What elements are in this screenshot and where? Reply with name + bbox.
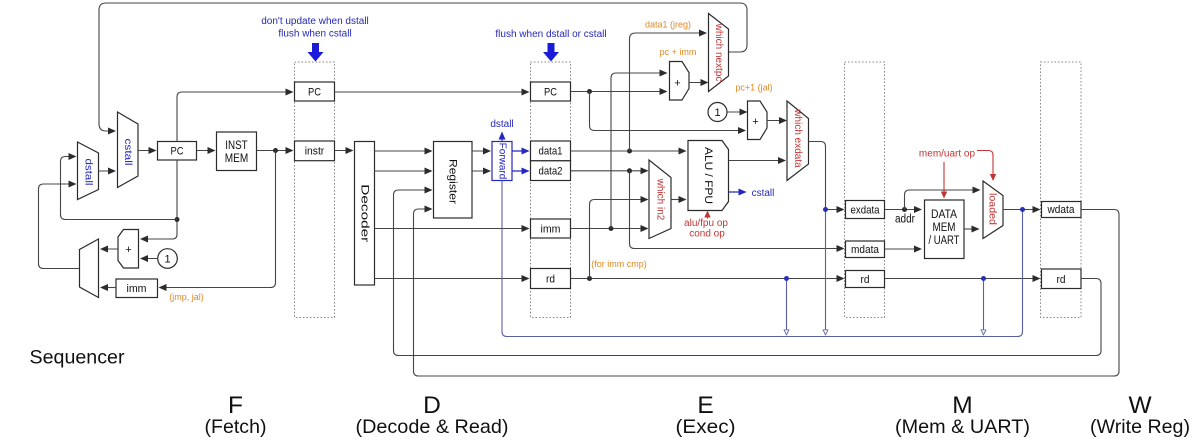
wire: Forward out2 to data2 (blue)	[512, 170, 529, 172]
svg-text:loaded: loaded	[987, 193, 998, 225]
wire: dstall out to cstall in2	[99, 170, 116, 172]
wire: PC hold back to dstall in1	[61, 157, 178, 220]
register imm (fetch)	[116, 279, 158, 298]
svg-text:exdata: exdata	[851, 205, 881, 217]
pipeline register D/E (dotted)	[531, 62, 571, 318]
register data2	[531, 161, 571, 181]
register imm (D/E)	[531, 219, 571, 238]
svg-text:cstall: cstall	[122, 139, 133, 166]
svg-text:(Mem & UART): (Mem & UART)	[895, 416, 1030, 438]
adder +1 (fetch)	[118, 230, 139, 269]
wire: adder out to jmp mux	[101, 248, 118, 250]
wire: PC bottom branch to +1 adder	[141, 160, 177, 239]
svg-text:MEM: MEM	[933, 222, 956, 234]
svg-text:PC: PC	[171, 146, 184, 158]
junction rd M forward (blue)	[981, 276, 986, 281]
svg-text:pc+1 (jal): pc+1 (jal)	[735, 83, 772, 93]
junction data2 branch	[627, 168, 632, 173]
adder pc+1	[748, 101, 768, 140]
junction PC hold	[175, 217, 180, 222]
svg-text:W: W	[1128, 392, 1152, 419]
wire: mem op arrow into DATA MEM (red)	[943, 162, 945, 198]
svg-text:PC: PC	[308, 87, 321, 99]
mux which exdata	[787, 101, 809, 181]
constant 1 (fetch)	[158, 249, 178, 269]
mux which in2	[649, 160, 671, 239]
wire: data1 out to ALU	[571, 150, 686, 152]
memory INST MEM	[217, 132, 257, 171]
svg-text:DATA: DATA	[931, 209, 957, 221]
wire: rd E/M forward tap (blue)	[786, 279, 788, 335]
junction exdata forward (blue)	[823, 207, 828, 212]
svg-text:which in2: which in2	[655, 178, 666, 221]
wire: data2 down to mdata	[630, 171, 844, 249]
blue fat arrow D/E	[543, 43, 559, 62]
svg-text:data2: data2	[539, 166, 563, 178]
wire: data1 up to which-nextpc (jreg)	[630, 33, 707, 151]
wire: Decoder src1 to Register	[375, 150, 432, 152]
wire: PC to INST MEM	[197, 150, 215, 152]
junction rd E forward (blue)	[784, 276, 789, 281]
svg-text:don't update when dstall: don't update when dstall	[261, 16, 369, 27]
wire: mem op elbow into loaded mux (red)	[977, 151, 993, 181]
wire: instr down to fetch imm box	[160, 151, 276, 288]
wire: Forward dstall up arrow (blue)	[501, 133, 503, 142]
wire: ALU cstall out (blue)	[729, 191, 746, 193]
svg-text:cstall: cstall	[752, 188, 775, 199]
svg-text:alu/fpu op: alu/fpu op	[684, 218, 728, 229]
junction data1 branch	[627, 149, 632, 154]
svg-text:(Exec): (Exec)	[676, 416, 736, 438]
pipeline register M/W (dotted)	[1041, 62, 1082, 318]
mux cstall	[118, 112, 139, 188]
junction rd imm-cmp branch	[587, 276, 592, 281]
svg-text:Forward: Forward	[496, 143, 507, 180]
wire: Decoder imm out	[375, 228, 529, 230]
register PC (fetch)	[158, 142, 197, 161]
svg-text:M: M	[952, 392, 972, 419]
wire: which-in2 out to ALU	[671, 199, 686, 201]
blue fat arrow F/D	[308, 43, 324, 62]
memory DATA MEM / UART	[925, 200, 965, 259]
mux jmp target (fetch)	[80, 239, 99, 298]
wire: jmp mux out to dstall in2	[39, 184, 80, 269]
register PC (F/D)	[295, 82, 335, 101]
svg-text:imm: imm	[127, 283, 147, 295]
svg-text:mdata: mdata	[851, 244, 880, 256]
mux which nextpc	[709, 14, 729, 92]
svg-text:Decoder: Decoder	[358, 184, 370, 242]
wire: rd (W) writeback loop to Register	[394, 190, 1102, 356]
wire: op arrow into ALU (red)	[707, 212, 709, 219]
svg-text:rd: rd	[546, 274, 555, 286]
wire: imm up to pc+imm adder	[611, 73, 667, 229]
wire: cstall out to PC	[138, 150, 156, 152]
svg-text:rd: rd	[861, 274, 870, 286]
svg-text:(jmp, jal): (jmp, jal)	[169, 292, 204, 302]
wire: exdata bypass to loaded mux	[905, 190, 980, 210]
wire: DATA MEM out to loaded mux	[964, 228, 979, 230]
svg-text:flush when cstall: flush when cstall	[278, 29, 351, 40]
wire: 1 to adder	[141, 258, 158, 260]
junction wdata forward (blue)	[1020, 207, 1025, 212]
pipeline register E/M (dotted)	[845, 62, 885, 318]
wire: wdata writeback loop to Register	[414, 209, 1120, 376]
wire: pc+imm out to which-nextpc	[689, 82, 708, 84]
register rd (W)	[1042, 269, 1082, 289]
wire: E/M rd to M/W rd	[885, 278, 1040, 280]
svg-text:1: 1	[714, 107, 720, 119]
wire: mdata to DATA MEM	[885, 248, 922, 250]
junction imm branch	[609, 226, 614, 231]
svg-text:Register: Register	[447, 159, 459, 204]
wire: INST MEM out to instr register	[257, 150, 293, 152]
wire: which-nextpc output top loop back to cstall mux	[99, 3, 747, 131]
svg-text:dstall: dstall	[490, 119, 513, 130]
svg-text:INST: INST	[225, 140, 247, 152]
svg-text:mem/uart op: mem/uart op	[919, 149, 976, 160]
mux loaded	[983, 181, 1003, 239]
svg-text:ALU / FPU: ALU / FPU	[702, 147, 714, 204]
wire: PC top branch to F/D PC register	[177, 92, 293, 142]
wire: pc+1 out to which-exdata	[767, 120, 786, 122]
svg-text:+: +	[125, 244, 131, 256]
svg-text:MEM: MEM	[225, 153, 249, 165]
svg-text:(Write Reg): (Write Reg)	[1090, 416, 1190, 438]
svg-text:pc + imm: pc + imm	[660, 47, 697, 57]
wire: instr to Decoder	[335, 150, 353, 152]
svg-text:instr: instr	[305, 146, 325, 158]
wire: Decoder rd out	[375, 278, 529, 280]
mux dstall	[78, 142, 99, 200]
register exdata	[846, 201, 885, 219]
adder pc+imm	[670, 62, 690, 101]
svg-text:dstall: dstall	[83, 159, 94, 186]
svg-text:which exdata: which exdata	[792, 108, 803, 168]
svg-text:1: 1	[164, 254, 170, 266]
wire: rd M/W forward tap (blue)	[983, 279, 985, 335]
junction PC branch	[587, 89, 592, 94]
wire: rd out to E/M rd	[571, 278, 844, 280]
svg-text:wdata: wdata	[1047, 204, 1076, 216]
svg-text:rd: rd	[1057, 274, 1066, 286]
pipeline register F/D (dotted)	[295, 62, 335, 318]
alu ALU / FPU	[688, 141, 729, 211]
svg-text:(Decode & Read): (Decode & Read)	[356, 416, 509, 438]
wire: Forward out1 to data1 (blue)	[512, 150, 529, 152]
svg-text:data1: data1	[539, 146, 563, 158]
wire: Register data1 to Forward	[472, 150, 490, 152]
svg-text:(Fetch): (Fetch)	[205, 416, 267, 438]
register data1	[531, 141, 571, 161]
wire: rd up to which-in2 (for imm cmp)	[590, 200, 648, 279]
wire: 1 to pc+1 adder	[727, 111, 747, 113]
svg-text:D: D	[423, 392, 441, 419]
decoder	[355, 142, 375, 286]
register file Register	[434, 142, 473, 219]
svg-text:addr: addr	[895, 214, 915, 226]
junction instr branch	[273, 148, 278, 153]
register PC (D/E)	[531, 82, 571, 101]
svg-text:+: +	[752, 116, 758, 128]
junction addr branch	[902, 207, 907, 212]
svg-text:which nextpc: which nextpc	[713, 23, 724, 82]
wire: exdata forward tap (blue)	[825, 210, 827, 335]
wire: D/E PC to pc+imm adder	[571, 91, 667, 93]
svg-text:Sequencer: Sequencer	[30, 348, 126, 369]
svg-text:data1 (jreg): data1 (jreg)	[645, 20, 691, 30]
register mdata	[846, 241, 885, 258]
svg-text:flush when dstall or cstall: flush when dstall or cstall	[495, 29, 606, 40]
wire: Decoder src2 to Register	[375, 170, 432, 172]
register rd (E/M)	[846, 271, 885, 288]
svg-text:E: E	[697, 392, 713, 419]
svg-text:cond op: cond op	[689, 229, 725, 240]
wire: F/D PC to D/E PC	[335, 91, 529, 93]
wire: Register data2 to Forward	[472, 170, 490, 172]
register rd (D/E)	[531, 269, 571, 289]
register wdata	[1042, 202, 1082, 218]
constant 1 (exec)	[708, 103, 727, 122]
wire: data2 out to which-in2	[571, 170, 648, 172]
wire: which-exdata out down to exdata	[809, 142, 826, 209]
wire: loaded out to wdata	[1003, 209, 1040, 211]
wire: imm box to jmp mux	[101, 287, 116, 289]
svg-text:(for imm cmp): (for imm cmp)	[591, 259, 647, 269]
svg-text:F: F	[228, 392, 243, 419]
wire: imm out to which-in2	[571, 228, 648, 230]
wire: exdata to DATA MEM (addr)	[885, 209, 922, 211]
wire: blue forwarding loop to Forward unit	[502, 181, 1023, 337]
svg-text:imm: imm	[541, 224, 561, 236]
forwarding unit Forward	[492, 142, 512, 181]
wire: ALU out to which-exdata	[729, 160, 786, 162]
wire: PC down to pc+1 adder	[590, 92, 746, 131]
svg-text:+: +	[674, 78, 680, 90]
svg-text:/ UART: / UART	[929, 235, 960, 247]
register instr	[295, 141, 335, 161]
svg-text:PC: PC	[544, 87, 557, 99]
